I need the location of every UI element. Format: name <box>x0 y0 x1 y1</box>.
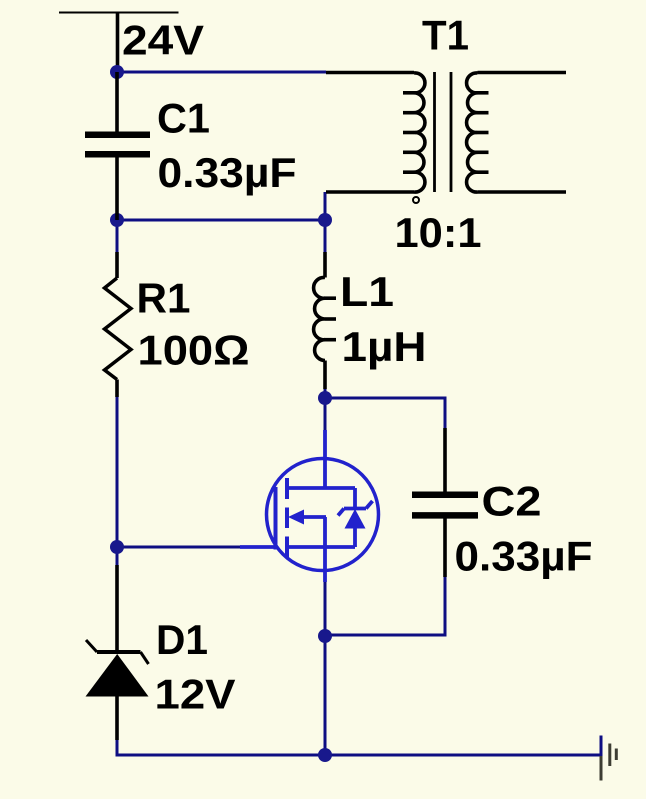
svg-text:24V: 24V <box>122 17 204 64</box>
core <box>433 72 436 192</box>
primary top lead <box>326 71 414 75</box>
channel bars <box>285 478 289 499</box>
body circle <box>267 459 379 571</box>
zener cathode bar <box>344 507 366 511</box>
body diode branch <box>353 488 357 509</box>
arrow into channel <box>288 510 304 525</box>
svg-text:R1: R1 <box>137 275 191 322</box>
svg-text:C2: C2 <box>482 478 542 525</box>
power rail 24V symbol <box>59 13 179 73</box>
ground symbol <box>601 744 616 781</box>
transformer T1 <box>326 72 566 192</box>
wire net top rail <box>116 72 602 757</box>
svg-text:1µH: 1µH <box>342 323 427 370</box>
svg-text:T1: T1 <box>422 12 469 59</box>
svg-text:D1: D1 <box>156 616 208 663</box>
svg-text:L1: L1 <box>340 268 394 315</box>
gate lead <box>240 545 276 549</box>
gate bar <box>274 487 278 550</box>
junction node dots <box>110 65 332 762</box>
svg-text:100Ω: 100Ω <box>138 327 250 374</box>
svg-text:10:1: 10:1 <box>395 209 482 256</box>
primary winding <box>414 73 425 192</box>
body diode triangle <box>345 509 366 529</box>
D1 triangle <box>86 654 149 697</box>
secondary bottom lead <box>478 190 567 194</box>
source connection <box>287 545 355 549</box>
inductor L1 <box>314 252 336 389</box>
capacitor C1 <box>85 72 150 220</box>
svg-text:0.33µF: 0.33µF <box>158 149 297 196</box>
svg-text:C1: C1 <box>157 95 210 142</box>
resistor R1 <box>105 252 132 397</box>
primary bottom lead <box>326 190 414 194</box>
secondary top lead <box>478 71 567 75</box>
secondary winding <box>467 73 478 192</box>
drain connection <box>323 430 327 488</box>
capacitor C2 <box>412 428 478 577</box>
svg-text:0.33µF: 0.33µF <box>455 533 593 580</box>
MOSFET Q1 <box>240 430 379 582</box>
phase dot <box>413 197 419 203</box>
svg-text:12V: 12V <box>155 671 236 718</box>
zener diode D1 <box>86 565 149 740</box>
